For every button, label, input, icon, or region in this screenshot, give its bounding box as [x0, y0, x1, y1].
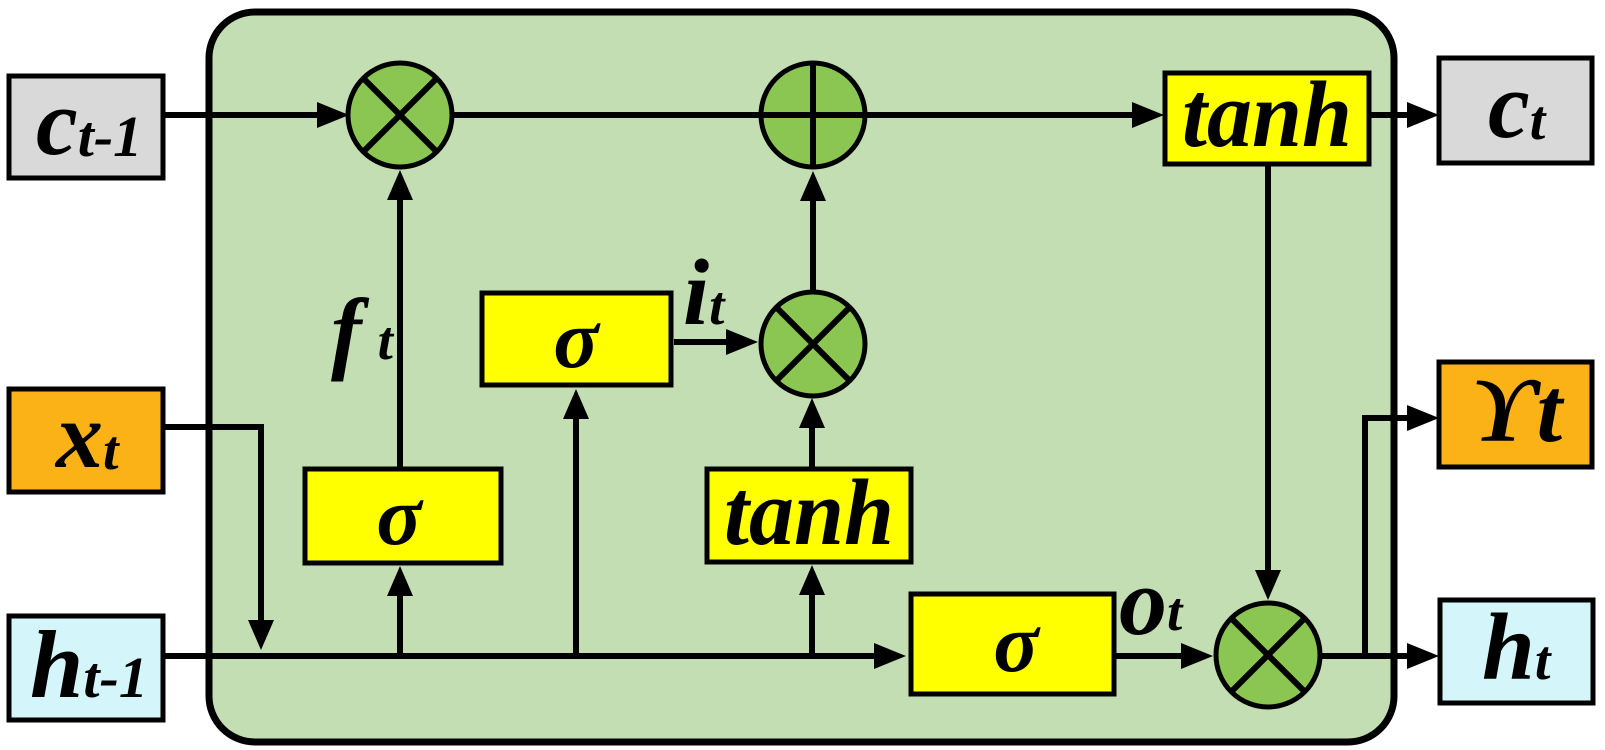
wire tanh T1 up to M2 [809, 425, 815, 468]
svg-text:σ: σ [993, 597, 1041, 690]
sigma gate S2 (input) [482, 293, 671, 386]
svg-text:σ: σ [376, 470, 424, 563]
sigma gate S1 (forget) [305, 469, 501, 563]
svg-text:tanh: tanh [724, 461, 894, 565]
svg-text:ϒt: ϒt [1470, 359, 1565, 461]
sigma gate S3 (output) [911, 594, 1114, 694]
wire branch up to sigma S2 [573, 416, 579, 656]
wire sigma S3 to M3 [1115, 653, 1186, 659]
input box h_t-1 [9, 611, 163, 720]
tanh gate T1 [707, 461, 911, 565]
wire P1 to tanh T2 [865, 112, 1134, 118]
output box c_t [1439, 54, 1592, 163]
svg-text:σ: σ [553, 293, 601, 386]
wire branch up to sigma S1 [397, 593, 403, 656]
wire c_t-1 to multiply node M1 [164, 112, 322, 118]
multiply node M1 [348, 63, 452, 167]
wire branch up to tanh T1 [809, 593, 815, 656]
plus node P1 [761, 63, 865, 167]
input box x_t [9, 384, 163, 492]
wire tanh T2 to c_t [1371, 112, 1411, 118]
multiply node M2 [761, 292, 865, 396]
output box Y_t [1439, 359, 1592, 467]
wire M2 up to P1 [810, 199, 816, 292]
wire sigma S2 to M2, gate i_t [674, 339, 730, 345]
multiply node M3 [1216, 603, 1320, 707]
wire tanh T2 down to multiply node M3 [1265, 165, 1271, 572]
LSTM cell body [209, 12, 1394, 742]
wire x_t elbow down to h line [164, 427, 261, 621]
wire M3 branch up to Y_t [1365, 418, 1411, 653]
svg-text:tanh: tanh [1182, 63, 1352, 167]
input box c_t-1 [9, 71, 163, 178]
wire M3 to h_t [1319, 653, 1411, 659]
wire h_t-1 horizontal line [164, 653, 879, 659]
output box h_t [1440, 594, 1593, 703]
wire M1 to plus node P1 [452, 112, 761, 118]
tanh gate T2 (cell output) [1165, 63, 1369, 167]
wire sigma S1 up to M1, gate f_t [397, 198, 403, 468]
